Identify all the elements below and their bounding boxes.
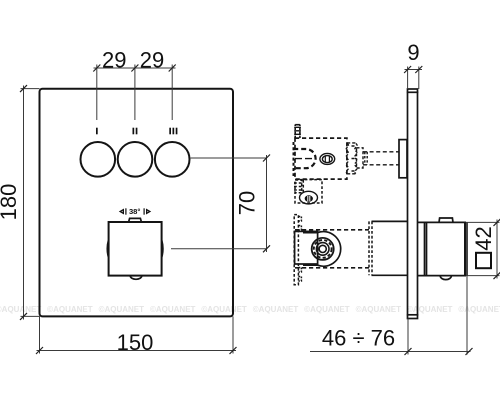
dimension 29-29 bbox=[93, 48, 175, 121]
svg-text:©AQUANET: ©AQUANET bbox=[253, 305, 299, 314]
dimension 150 bbox=[36, 316, 237, 355]
knob front side bulges bbox=[107, 241, 108, 258]
dimension 180 bbox=[0, 85, 40, 320]
knob front top tab bbox=[129, 218, 142, 222]
watermark row bbox=[0, 305, 500, 314]
38° label bbox=[119, 207, 151, 216]
svg-text:©AQUANET: ©AQUANET bbox=[99, 305, 145, 314]
sleeve escutcheon bbox=[369, 221, 408, 275]
middle connector (hidden) bbox=[294, 180, 322, 203]
knob (side) bbox=[418, 222, 467, 275]
svg-text:©AQUANET: ©AQUANET bbox=[356, 305, 402, 314]
button circle III bbox=[155, 142, 190, 177]
svg-text:©AQUANET: ©AQUANET bbox=[150, 305, 196, 314]
thermostat bell bbox=[303, 232, 341, 267]
svg-text:©AQUANET: ©AQUANET bbox=[0, 305, 41, 314]
button circle I bbox=[81, 142, 116, 177]
svg-text:©AQUANET: ©AQUANET bbox=[407, 305, 453, 314]
svg-text:29: 29 bbox=[102, 48, 126, 73]
svg-text:©AQUANET: ©AQUANET bbox=[304, 305, 350, 314]
collar (hidden) bbox=[357, 148, 364, 168]
lower mounting rail (hidden) bbox=[294, 215, 301, 285]
svg-text:70: 70 bbox=[235, 191, 260, 215]
cartridge circles bbox=[312, 238, 334, 260]
svg-text:©AQUANET: ©AQUANET bbox=[458, 305, 500, 314]
top inlet stub (hidden) bbox=[294, 125, 301, 139]
cartridge cylinder (hidden) bbox=[295, 230, 369, 268]
button circle II bbox=[118, 142, 153, 177]
label II bbox=[133, 128, 138, 135]
svg-text:42: 42 bbox=[471, 226, 496, 250]
knob front bottom arc bbox=[130, 276, 142, 280]
dimension square-42 bbox=[466, 219, 500, 279]
knob front square bbox=[109, 222, 162, 276]
front plate bbox=[40, 89, 234, 317]
svg-text:©AQUANET: ©AQUANET bbox=[47, 305, 93, 314]
svg-text:38°: 38° bbox=[129, 207, 140, 216]
label I bbox=[96, 128, 98, 135]
svg-text:180: 180 bbox=[0, 184, 21, 221]
label III bbox=[169, 128, 177, 135]
svg-text:29: 29 bbox=[140, 48, 164, 73]
wall plate (side) bbox=[407, 89, 419, 319]
middle port ellipse bbox=[300, 191, 318, 204]
threaded section (hidden) bbox=[346, 143, 357, 174]
svg-text:150: 150 bbox=[117, 330, 154, 355]
dimension 70 bbox=[171, 155, 270, 253]
svg-text:9: 9 bbox=[407, 40, 419, 65]
diverter wall flange bbox=[399, 140, 407, 178]
knob side top tab bbox=[439, 218, 453, 222]
diverter body (hidden) bbox=[295, 138, 347, 179]
diverter port ellipses bbox=[320, 153, 335, 164]
dimension 9 bbox=[404, 40, 422, 89]
diverter inner detail (hidden) bbox=[293, 149, 315, 168]
svg-text:46 ÷ 76: 46 ÷ 76 bbox=[322, 326, 395, 351]
diverter shaft (hidden) bbox=[363, 152, 399, 165]
thermostat body bbox=[295, 231, 318, 264]
dimension 46÷76 bbox=[310, 276, 473, 355]
knob side bottom lip bbox=[440, 276, 451, 280]
svg-text:©AQUANET: ©AQUANET bbox=[201, 305, 247, 314]
